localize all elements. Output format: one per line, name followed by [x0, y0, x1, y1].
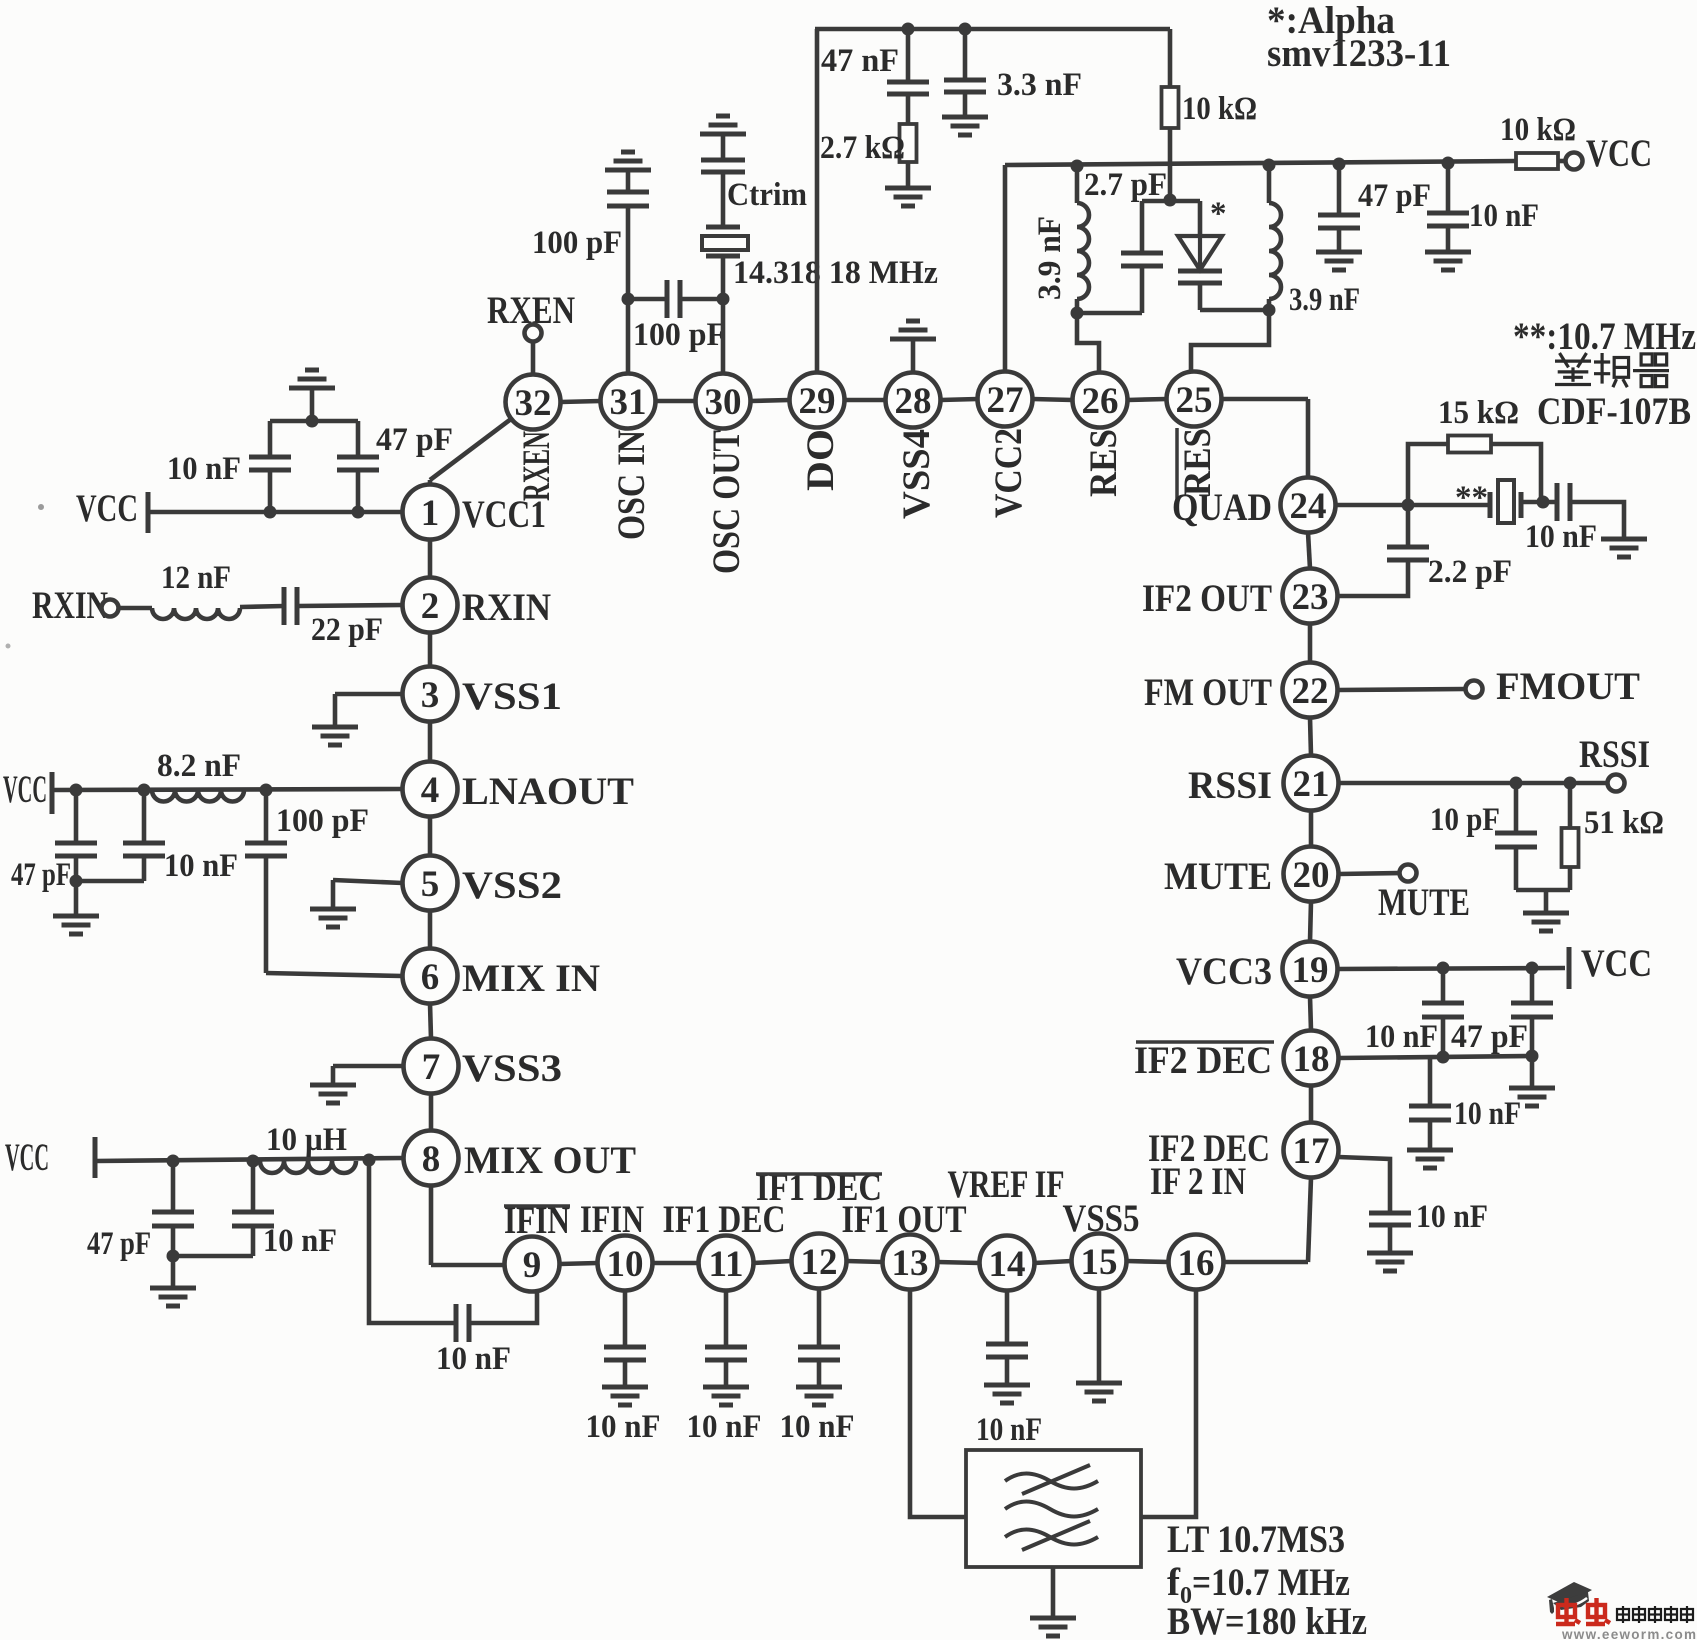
capacitor Ctrim: [701, 160, 745, 172]
junction cap tops: [306, 415, 319, 428]
ground (RSSI): [1523, 913, 1569, 931]
wire 10nF bottom lead (pin8): [251, 1226, 256, 1256]
svg-text:11: 11: [709, 1244, 744, 1285]
ground (filter): [1030, 1618, 1076, 1636]
svg-text:IF 2 IN: IF 2 IN: [1150, 1160, 1246, 1203]
svg-text:10 pF: 10 pF: [1430, 802, 1500, 838]
IC pin 1 circle: [403, 485, 458, 540]
VCC terminal bar pin4: [50, 772, 55, 814]
watermark glyph chong (left): [1556, 1598, 1580, 1624]
IC pin 4 circle: [403, 762, 458, 817]
svg-text:1: 1: [421, 493, 440, 534]
IC pin 18 circle: [1284, 1031, 1339, 1086]
wire 100pF top lead: [264, 790, 269, 843]
wire coil2 bottom lead: [1267, 299, 1272, 310]
wire 47pF bottom lead: [74, 856, 79, 881]
wire pin31-pin30: [656, 399, 696, 404]
svg-text:VREF IF: VREF IF: [948, 1163, 1065, 1206]
ground (47pF rail): [1316, 252, 1362, 270]
svg-text:13: 13: [892, 1243, 929, 1284]
wire 10nF upper lead: [268, 421, 273, 457]
wire pin32-pin1 vertical: [428, 480, 433, 485]
ground (pin10): [602, 1387, 648, 1405]
wire pin28 to ground: [911, 339, 916, 373]
wire 47pF top lead: [74, 790, 79, 843]
capacitor 47 pF (VCC2 rail): [1318, 215, 1360, 228]
wire pin5 to ground: [333, 880, 403, 883]
wire to ground (pin1 caps): [310, 388, 315, 421]
wire 10nF bottom lead (VCC3): [1441, 1017, 1446, 1057]
IC pin 23 circle: [1283, 569, 1338, 624]
wire corner-pin17: [1308, 1178, 1311, 1263]
svg-text:**:10.7 MHz: **:10.7 MHz: [1513, 315, 1696, 358]
wire ground stem (pin5): [331, 880, 336, 909]
crystal 14.318 MHz: [702, 227, 748, 256]
wire 2.2pF to pin23: [1338, 560, 1409, 596]
wire 10pF bottom lead: [1514, 847, 1519, 890]
ground (pin5 VSS2): [310, 909, 356, 927]
junction pin30/crystal: [717, 293, 730, 306]
svg-text:47 pF: 47 pF: [1451, 1019, 1528, 1055]
junction 10nF (pin8): [247, 1155, 260, 1168]
wire to 47nF: [906, 29, 911, 82]
svg-text:14.318 18 MHz: 14.318 18 MHz: [733, 255, 938, 291]
ground (pin18): [1407, 1150, 1453, 1168]
wire pin14 to cap: [1005, 1291, 1010, 1345]
wire junction to pin30: [721, 299, 726, 374]
svg-text:15 kΩ: 15 kΩ: [1438, 395, 1519, 431]
wire 100pF to ground: [626, 170, 631, 192]
svg-text:IF2 DEC: IF2 DEC: [1134, 1039, 1272, 1082]
svg-text:2.7 pF: 2.7 pF: [1084, 167, 1167, 203]
ground (100pF OSC IN): [605, 152, 651, 170]
overline of IF1 DEC: [756, 1172, 882, 1176]
junction 100pF: [260, 784, 273, 797]
wire tank to pin26: [1077, 313, 1099, 373]
wire crystal to Ctrim: [721, 172, 726, 227]
svg-text:FMOUT: FMOUT: [1496, 665, 1640, 708]
svg-text:5: 5: [421, 864, 440, 905]
svg-text:VCC: VCC: [5, 1136, 49, 1179]
wire 15k to junction: [1491, 444, 1541, 502]
capacitor 47 pF (VCC3): [1511, 1003, 1553, 1017]
wire varactor top lead: [1198, 201, 1203, 236]
svg-text:RSSI: RSSI: [1188, 764, 1272, 807]
wire pin24 to node: [1336, 503, 1409, 508]
wire pin10 to cap: [623, 1290, 628, 1347]
svg-text:10 nF: 10 nF: [1469, 198, 1539, 234]
wire RXEN to pin32: [531, 342, 536, 374]
svg-text:LNAOUT: LNAOUT: [462, 770, 634, 813]
wire pin18-pin17: [1309, 1086, 1314, 1123]
wire 10nF to ground (pin18): [1428, 1120, 1433, 1150]
ground (pin1 caps): [289, 370, 335, 388]
ground (quad): [1601, 539, 1647, 557]
IC pin 25 circle: [1167, 372, 1222, 427]
svg-text:30: 30: [705, 382, 742, 423]
svg-text:VCC2: VCC2: [987, 428, 1030, 518]
junction 10nF (VCC3): [1437, 962, 1450, 975]
VCC terminal bar pin1: [146, 492, 151, 533]
svg-text:10 nF: 10 nF: [976, 1412, 1042, 1448]
wire corner-pin24: [1306, 399, 1311, 478]
svg-text:9: 9: [523, 1245, 542, 1286]
svg-text:*: *: [1210, 196, 1227, 232]
junction discr/10nF: [1537, 496, 1550, 509]
wire crystal to junction: [721, 256, 726, 299]
svg-text:www.eeworm.com: www.eeworm.com: [1561, 1627, 1696, 1640]
svg-text:2: 2: [421, 586, 440, 627]
svg-text:VSS1: VSS1: [462, 675, 562, 718]
wire coil2 top lead: [1267, 165, 1272, 203]
wire pin11-pin12: [754, 1261, 792, 1263]
svg-text:10 nF: 10 nF: [164, 848, 238, 884]
ground (pin14): [984, 1385, 1030, 1403]
IC pin 9 circle: [505, 1237, 560, 1292]
wire tank to pin25: [1191, 310, 1269, 372]
filter symbol waves: [1005, 1465, 1098, 1550]
wire varactor node link: [1142, 199, 1200, 204]
IC pin 10 circle: [598, 1236, 653, 1291]
wire junction to pin31: [626, 299, 631, 374]
wire series cap to junction: [680, 297, 723, 302]
svg-text:VSS4: VSS4: [895, 429, 938, 519]
svg-text:4: 4: [421, 770, 440, 811]
resistor 15 kOhm: [1448, 436, 1491, 453]
junction cap bottoms (pin8): [167, 1250, 180, 1263]
ground (Ctrim): [700, 116, 746, 134]
wire pin3-pin4: [428, 722, 433, 762]
wire 10nF bottom link: [76, 879, 144, 884]
svg-text:47 pF: 47 pF: [1358, 178, 1431, 214]
wire pin3 to ground: [335, 692, 403, 697]
svg-text:3.9 nF: 3.9 nF: [1289, 282, 1360, 318]
junction 47pF (VCC3): [1526, 962, 1539, 975]
wire to 10nF (pin18): [1428, 1057, 1433, 1106]
wire pin21-pin20: [1309, 811, 1314, 847]
svg-text:RXIN: RXIN: [32, 584, 108, 627]
wire pin18 to 47pF bottom: [1339, 1056, 1533, 1058]
capacitor 10 nF (pin10): [604, 1347, 646, 1360]
wire ground stem (pin4): [74, 881, 79, 916]
inductor 12 nF (RXIN): [152, 608, 240, 619]
wire 10nF to ground (quad): [1570, 502, 1624, 539]
wire pin11 to cap: [724, 1290, 729, 1347]
ground (pin4 caps): [53, 916, 99, 934]
svg-text:3.3 nF: 3.3 nF: [997, 67, 1082, 103]
svg-text:2.2 pF: 2.2 pF: [1428, 554, 1512, 590]
terminal MUTE: [1400, 865, 1417, 882]
IC pin 3 circle: [403, 667, 458, 722]
wire filter to ground: [1051, 1567, 1056, 1618]
wire pin29-pin28: [845, 398, 886, 403]
inductor 3.9 nF (left): [1077, 203, 1089, 299]
capacitor 47 pF (pin4): [55, 843, 97, 856]
wire pin16-corner: [1224, 1260, 1309, 1265]
capacitor 10 nF (pin4): [123, 843, 165, 856]
svg-text:24: 24: [1290, 486, 1327, 527]
wire node to discriminator: [1408, 503, 1488, 508]
capacitor 10 nF (MIXOUT-IFIN series): [456, 1304, 469, 1342]
wire to 10nF (rail): [1446, 163, 1451, 213]
wire 47pF to ground (rail): [1337, 228, 1342, 252]
wire VCC2 rail: [1005, 161, 1516, 165]
IC pin 32 circle: [506, 375, 561, 430]
wire RSSI ground stem: [1544, 890, 1549, 913]
svg-text:MIX OUT: MIX OUT: [464, 1139, 636, 1182]
ground (pin8 caps): [150, 1288, 196, 1306]
IC pin 2 circle: [403, 578, 458, 633]
svg-text:18: 18: [1293, 1039, 1330, 1080]
svg-text:OSC IN: OSC IN: [609, 430, 653, 540]
svg-text:VCC: VCC: [76, 487, 138, 530]
svg-text:100 pF: 100 pF: [276, 803, 369, 839]
svg-text:8: 8: [422, 1139, 441, 1180]
IC pin 16 circle: [1169, 1235, 1224, 1290]
resistor 10 kOhm (vertical): [1162, 87, 1179, 128]
svg-text:CDF-107B: CDF-107B: [1537, 390, 1691, 433]
wire pin22 to FMOUT terminal: [1338, 689, 1466, 690]
capacitor 47 nF: [887, 82, 929, 94]
svg-text:20: 20: [1293, 855, 1330, 896]
wire VCC to pin8: [95, 1158, 404, 1161]
wire ground stem (pin8): [171, 1256, 176, 1288]
capacitor 10 nF (pin11): [705, 1347, 747, 1360]
wire pin27-pin26: [1033, 399, 1073, 400]
terminal RXEN: [525, 325, 542, 342]
svg-text:RES: RES: [1082, 429, 1125, 497]
junction coil1 bottom: [1071, 307, 1084, 320]
wire 47pF bottom lead (VCC3): [1530, 1017, 1535, 1056]
IC pin 19 circle: [1283, 942, 1338, 997]
junction 47pF/10nF bottoms: [70, 875, 83, 888]
resistor 2.7 kOhm: [900, 124, 917, 162]
svg-text:51 kΩ: 51 kΩ: [1584, 805, 1664, 841]
IC pin 28 circle: [886, 373, 941, 428]
wire pin26-pin25: [1128, 399, 1167, 400]
junction coil1 top: [1071, 160, 1084, 173]
svg-text:10: 10: [607, 1244, 644, 1285]
ground (pin12): [796, 1387, 842, 1405]
wire junction to series cap: [628, 297, 667, 302]
IC pin 12 circle: [792, 1234, 847, 1289]
svg-text:IF2 OUT: IF2 OUT: [1142, 577, 1272, 620]
capacitor 3.3 nF: [944, 80, 986, 92]
capacitor 2.2 pF: [1387, 547, 1429, 560]
text pin (discriminator note): [1594, 353, 1629, 387]
wire 47nF to 2.7k: [906, 94, 911, 124]
wire VCC to pin1: [148, 510, 403, 515]
wire to 3.3nF: [963, 29, 968, 80]
wire pin13-pin14: [938, 1262, 980, 1263]
svg-text:VCC: VCC: [3, 768, 47, 811]
terminal RXIN: [102, 600, 119, 617]
junction pin31/100pF: [622, 293, 635, 306]
terminal VCC (top right): [1566, 153, 1583, 170]
svg-text:10 nF: 10 nF: [687, 1409, 762, 1445]
junction 10pF (RSSI): [1510, 777, 1523, 790]
junction quad node: [1402, 499, 1415, 512]
svg-text:**: **: [1455, 480, 1488, 516]
svg-text:27: 27: [987, 380, 1024, 421]
svg-text:7: 7: [422, 1047, 441, 1088]
wire ground stem (pin7): [331, 1066, 336, 1085]
svg-text:Ctrim: Ctrim: [727, 177, 807, 213]
ground (10nF rail): [1425, 252, 1471, 270]
inductor 8.2 nF (LNAOUT): [152, 790, 244, 802]
wire pin28-pin27: [941, 399, 978, 400]
wire ground stem (pin3): [333, 694, 338, 727]
ground (pin28 VSS4): [890, 321, 936, 339]
capacitor 22 pF (series): [284, 587, 297, 625]
svg-text:10 nF: 10 nF: [263, 1223, 337, 1259]
IC pin 22 circle: [1283, 663, 1338, 718]
wire 2.7k to ground: [906, 162, 911, 188]
IC pin 29 circle: [790, 373, 845, 428]
svg-text:10 kΩ: 10 kΩ: [1182, 91, 1257, 127]
wire pin29 DO riser: [815, 29, 820, 373]
text qi (discriminator note): [1633, 354, 1669, 387]
wire 2.7pF top lead: [1140, 201, 1145, 253]
svg-text:10 nF: 10 nF: [1365, 1019, 1438, 1055]
svg-text:VCC: VCC: [1581, 942, 1652, 985]
wire 10nF top lead: [142, 790, 147, 843]
capacitor 10 nF (pin8): [232, 1212, 274, 1226]
svg-text:32: 32: [515, 383, 552, 424]
ground (pin11): [703, 1387, 749, 1405]
svg-text:DO: DO: [798, 429, 842, 491]
svg-text:29: 29: [799, 381, 836, 422]
wire pin6-pin7: [430, 1004, 431, 1039]
wire pin19 to VCC: [1338, 968, 1566, 969]
junction VCC/10nF: [264, 506, 277, 519]
svg-text:RSSI: RSSI: [1579, 733, 1650, 776]
wire pin27 riser: [1003, 165, 1008, 372]
IC pin 26 circle: [1073, 373, 1128, 428]
capacitor 10 nF (pin14): [986, 1344, 1028, 1357]
wire cap to ground (pin14): [1005, 1357, 1010, 1385]
svg-text:MUTE: MUTE: [1164, 855, 1272, 898]
IC pin 5 circle: [403, 856, 458, 911]
IC pin 17 circle: [1284, 1123, 1339, 1178]
resistor 51 kOhm: [1562, 828, 1579, 867]
wire pin32-pin31: [561, 401, 601, 402]
capacitor 10 nF (pin18): [1409, 1106, 1451, 1120]
inductor 10 uH (MIX OUT): [260, 1161, 356, 1173]
terminal RSSI: [1608, 775, 1625, 792]
ground (3.3nF): [942, 117, 988, 135]
svg-text:QUAD: QUAD: [1172, 486, 1272, 529]
wire 47pF ground stem: [1530, 1056, 1535, 1088]
wire pin15-pin16: [1127, 1261, 1169, 1262]
terminal FMOUT: [1466, 681, 1483, 698]
wire cap to ground (pin12): [817, 1360, 822, 1387]
svg-text:3: 3: [421, 675, 440, 716]
svg-text:2.7 kΩ: 2.7 kΩ: [820, 130, 905, 166]
wire node to 15k: [1408, 444, 1448, 505]
junction 3.3nF: [959, 23, 972, 36]
IC pin 30 circle: [696, 374, 751, 429]
junction 47pF: [70, 784, 83, 797]
IC pin 20 circle: [1284, 847, 1339, 902]
svg-text:RXEN: RXEN: [516, 431, 559, 501]
svg-text:47 pF: 47 pF: [87, 1226, 151, 1262]
capacitor 2.7 pF (tank): [1121, 253, 1163, 266]
wire 10nF top lead (VCC3): [1441, 968, 1446, 1003]
wire RSSI bottom link: [1516, 888, 1570, 893]
capacitor 10 nF (quad series): [1557, 483, 1570, 521]
wire 10nF to ground (rail): [1446, 226, 1451, 252]
svg-text:22 pF: 22 pF: [311, 612, 383, 648]
svg-text:LT 10.7MS3: LT 10.7MS3: [1167, 1518, 1345, 1561]
junction pin18/10nF: [1437, 1051, 1450, 1064]
svg-text:28: 28: [895, 381, 932, 422]
varactor diode smv1233-11: [1178, 236, 1222, 283]
svg-text:22: 22: [1292, 671, 1329, 712]
IC pin 11 circle: [699, 1236, 754, 1291]
capacitor 10 nF (pin12): [798, 1347, 840, 1360]
svg-text:10 nF: 10 nF: [586, 1409, 661, 1445]
wire bypass to 10nF cap: [369, 1161, 456, 1323]
wire 10nF bottom link (pin8): [173, 1254, 253, 1259]
wire discriminator to junction: [1521, 500, 1557, 505]
wire pin20-pin19: [1310, 902, 1311, 942]
svg-text:10 kΩ: 10 kΩ: [1500, 112, 1576, 148]
wire pin10-pin11: [653, 1261, 699, 1266]
svg-text:25: 25: [1176, 380, 1213, 421]
svg-text:6: 6: [421, 957, 440, 998]
svg-text:10 nF: 10 nF: [436, 1341, 511, 1377]
wire 10nF bottom lead: [142, 856, 147, 881]
wire 51k top lead: [1568, 783, 1573, 828]
junction 47pF top: [1333, 158, 1346, 171]
wire 10nF cap to pin9: [469, 1292, 537, 1323]
svg-text:12 nF: 12 nF: [161, 560, 231, 596]
wire cap to ground (pin11): [724, 1360, 729, 1387]
speck: [38, 504, 44, 510]
svg-text:10 nF: 10 nF: [1454, 1096, 1521, 1132]
watermark graduation cap: [1547, 1582, 1592, 1614]
wire pin15 to ground: [1097, 1289, 1102, 1384]
wire rail to 10k: [1168, 29, 1173, 87]
junction VCC/47pF: [352, 506, 365, 519]
junction coil2 top: [1263, 159, 1276, 172]
VCC terminal bar pin19: [1567, 947, 1572, 989]
ceramic filter LT 10.7MS3 body: [966, 1450, 1141, 1567]
wire pin23-pin22: [1308, 624, 1313, 663]
wire 3.3nF to ground: [963, 92, 968, 117]
wire pin17 to 10nF: [1339, 1157, 1391, 1213]
capacitor 47 pF (pin8): [152, 1212, 194, 1226]
wire pin19-pin18: [1310, 997, 1311, 1031]
svg-text:47 pF: 47 pF: [376, 422, 453, 458]
wire cap tops link: [270, 419, 358, 424]
junction varactor node: [1164, 194, 1177, 207]
wire 100pF to junction: [626, 206, 631, 299]
ground (47pF VCC3): [1509, 1088, 1555, 1106]
wire 47pF top lead (VCC3): [1530, 968, 1535, 1003]
IC pin 27 circle: [978, 372, 1033, 427]
watermark text dianzi xiazai zhan: [1617, 1606, 1693, 1623]
ground (pin17): [1367, 1253, 1413, 1271]
IC pin 8 circle: [404, 1131, 459, 1186]
ceramic discriminator CDF-107B (**): [1490, 480, 1521, 523]
ground (pin15 VSS5): [1076, 1383, 1122, 1401]
IC pin 7 circle: [404, 1039, 459, 1094]
wire 100pF to pin6: [266, 973, 403, 976]
junction 10nF: [138, 784, 151, 797]
wire pin4-pin5: [428, 817, 433, 856]
